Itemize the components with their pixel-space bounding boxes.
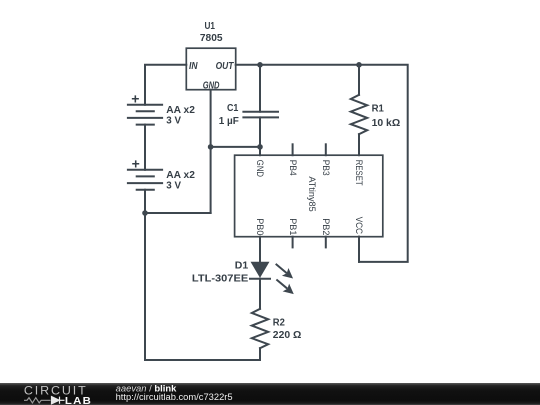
svg-text:PB0: PB0 [254, 218, 265, 235]
svg-text:PB3: PB3 [320, 160, 331, 176]
svg-text:7805: 7805 [200, 33, 223, 44]
svg-text:10 kΩ: 10 kΩ [372, 118, 401, 129]
svg-text:IN: IN [189, 61, 198, 72]
svg-text:AA x2: AA x2 [166, 170, 195, 181]
svg-text:ATtiny85: ATtiny85 [306, 176, 317, 211]
svg-text:+: + [131, 90, 139, 106]
svg-text:PB4: PB4 [287, 160, 298, 176]
svg-text:+: + [132, 155, 140, 171]
svg-text:C1: C1 [227, 103, 239, 114]
svg-text:VCC: VCC [353, 217, 364, 234]
svg-text:LTL-307EE: LTL-307EE [192, 274, 249, 285]
svg-text:1 µF: 1 µF [219, 116, 239, 127]
svg-text:AA x2: AA x2 [166, 105, 195, 116]
svg-text:R1: R1 [372, 103, 385, 114]
svg-text:PB2: PB2 [320, 218, 331, 235]
svg-text:LAB: LAB [65, 395, 92, 405]
svg-text:GND: GND [203, 80, 220, 91]
svg-text:RESET: RESET [353, 160, 364, 186]
svg-text:R2: R2 [273, 317, 286, 328]
svg-text:3 V: 3 V [166, 116, 181, 127]
svg-text:http://circuitlab.com/c7322r5: http://circuitlab.com/c7322r5 [116, 392, 233, 402]
svg-text:PB1: PB1 [287, 218, 298, 235]
svg-text:OUT: OUT [216, 61, 235, 72]
svg-text:220 Ω: 220 Ω [273, 330, 302, 341]
svg-text:3 V: 3 V [166, 181, 181, 192]
svg-text:D1: D1 [235, 260, 249, 271]
svg-text:GND: GND [254, 160, 265, 177]
svg-text:U1: U1 [204, 21, 215, 32]
